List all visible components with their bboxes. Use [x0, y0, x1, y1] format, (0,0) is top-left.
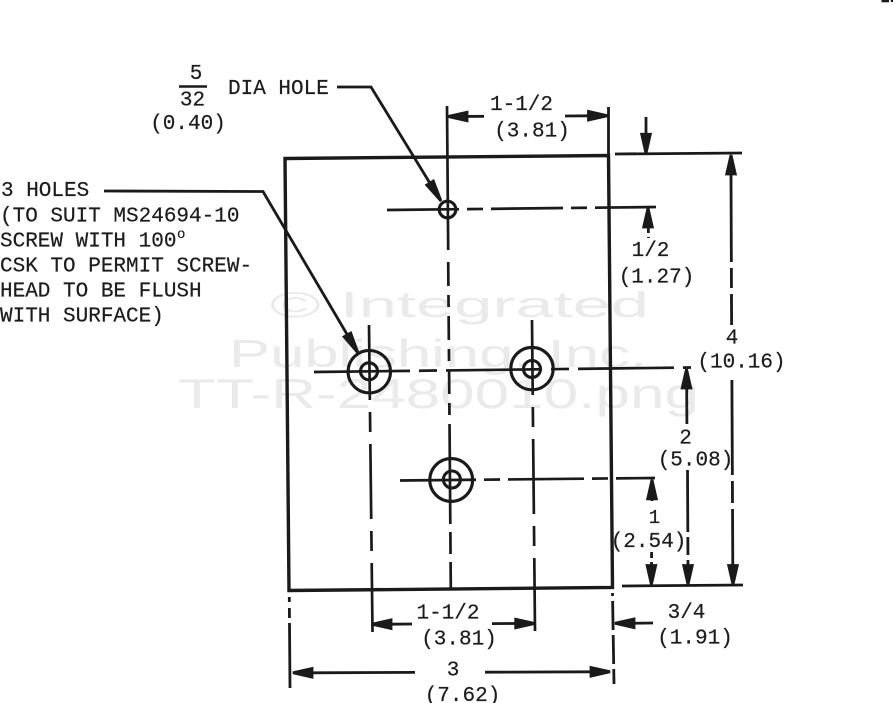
svg-text:(7.62): (7.62)	[425, 685, 501, 703]
svg-text:(0.40): (0.40)	[150, 113, 226, 136]
centerline horizontal top hole row	[387, 207, 656, 210]
svg-text:TT-R-2480010.png: TT-R-2480010.png	[178, 370, 699, 417]
dim shaft 4 lower	[731, 380, 735, 566]
centerline vertical center column middle dashes	[448, 262, 449, 432]
dim shaft 1/2 lower	[647, 227, 650, 238]
leader arrow DIA HOLE	[427, 181, 441, 201]
svg-text:(1.91): (1.91)	[657, 628, 733, 651]
svg-text:© Integrated: © Integrated	[270, 284, 649, 325]
svg-text:2: 2	[679, 428, 692, 451]
middle-left hole bore	[361, 363, 378, 380]
top small hole	[439, 201, 456, 218]
dim arrow 1-1/2 top right	[589, 111, 608, 120]
svg-text:(5.08): (5.08)	[658, 450, 734, 473]
svg-text:(TO SUIT MS24694-10: (TO SUIT MS24694-10	[0, 206, 239, 229]
dim arrow 4 up	[727, 155, 736, 174]
centerline horizontal middle hole row	[314, 368, 691, 373]
bottom hole bore	[443, 471, 460, 488]
extension line top edge to right	[615, 153, 742, 154]
svg-text:(10.16): (10.16)	[697, 352, 785, 375]
svg-text:5: 5	[190, 63, 203, 86]
svg-text:3/4: 3/4	[668, 602, 706, 625]
extension line top-right corner up	[607, 107, 610, 154]
dim shaft 4 upper	[730, 174, 733, 325]
dim arrow 3 left	[293, 669, 312, 678]
svg-text:3 HOLES: 3 HOLES	[1, 180, 89, 203]
extension line left edge below plate	[288, 597, 292, 688]
middle-left hole countersink	[348, 351, 390, 393]
dim line 3 left segment	[312, 671, 415, 674]
dim arrow 1 up	[648, 480, 657, 499]
dim arrow 4 down	[729, 566, 738, 585]
svg-text:(3.81): (3.81)	[421, 629, 497, 652]
dim arrow 1-1/2 top left	[448, 112, 467, 121]
centerline horizontal bottom hole row	[400, 478, 655, 481]
middle-right hole countersink	[511, 347, 553, 389]
svg-text:3: 3	[447, 660, 460, 683]
centerline vertical center column lower (bottom hole)	[450, 432, 451, 588]
svg-text:4: 4	[726, 328, 739, 351]
dim shaft 3/4	[634, 622, 653, 625]
svg-text:32: 32	[180, 90, 205, 113]
svg-text:1/2: 1/2	[632, 240, 670, 263]
dim shaft 2 upper	[685, 388, 688, 424]
dim line 1-1/2 top left segment	[448, 115, 484, 118]
fraction bar 5/32	[179, 85, 207, 88]
svg-text:HEAD TO BE FLUSH: HEAD TO BE FLUSH	[0, 281, 202, 304]
extension line right edge below plate	[613, 593, 615, 684]
leader arrow 3 HOLES	[344, 333, 358, 353]
dim shaft 1/2 upper	[645, 117, 648, 137]
svg-text:(1.27): (1.27)	[619, 267, 695, 290]
dim shaft 1 upper	[651, 499, 654, 504]
svg-text:1-1/2: 1-1/2	[416, 603, 479, 626]
centerline vertical right hole column	[532, 320, 535, 631]
dim shaft 1 lower	[650, 552, 653, 566]
dim arrow 3/4 left	[615, 619, 634, 628]
svg-text:(3.81): (3.81)	[494, 121, 570, 144]
dim line 1-1/2 bottom right segment	[492, 622, 516, 625]
dim arrow 2 down	[684, 566, 693, 585]
svg-text:o: o	[177, 227, 185, 243]
leader line DIA HOLE	[337, 87, 438, 196]
dim arrow 1/2 down	[642, 134, 651, 153]
bottom hole countersink	[430, 459, 473, 502]
svg-text:DIA HOLE: DIA HOLE	[228, 78, 329, 101]
svg-text:(2.54): (2.54)	[611, 531, 687, 554]
plate outline	[285, 156, 613, 591]
dim line 1-1/2 top right segment	[565, 114, 607, 117]
dim shaft 2 lower	[686, 470, 689, 566]
extension line bottom edge to right	[622, 585, 743, 586]
dim arrow 1-1/2 bottom left	[372, 620, 391, 629]
dim arrow 2 up	[682, 369, 691, 388]
dim line 1-1/2 bottom left segment	[391, 623, 412, 626]
dim arrow 1/2 up	[644, 208, 653, 227]
svg-text:CSK TO PERMIT SCREW-: CSK TO PERMIT SCREW-	[0, 256, 252, 279]
centerline vertical center column upper (top hole)	[447, 106, 448, 250]
svg-text:SCREW WITH 100: SCREW WITH 100	[0, 231, 176, 254]
dim arrow 1-1/2 bottom right	[516, 619, 535, 628]
dim arrow 1 down	[647, 566, 656, 585]
centerline vertical left hole column	[369, 325, 373, 632]
svg-text:1: 1	[649, 507, 660, 529]
svg-text:WITH SURFACE): WITH SURFACE)	[0, 306, 164, 329]
dim arrow 3 right	[591, 668, 610, 677]
leader line 3 HOLES	[104, 191, 355, 347]
dim line 3 right segment	[485, 670, 591, 673]
middle-right hole bore	[524, 361, 541, 378]
svg-text:1-1/2: 1-1/2	[490, 94, 553, 117]
